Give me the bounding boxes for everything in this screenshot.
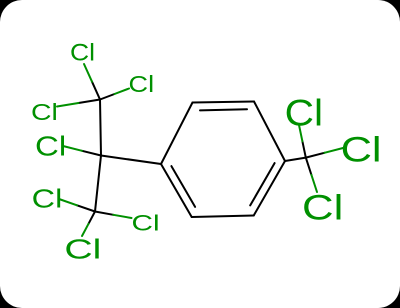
svg-text:Cl: Cl xyxy=(341,130,382,170)
svg-text:Cl: Cl xyxy=(31,99,58,125)
wire ring-C4 xyxy=(285,158,306,161)
benzene ring xyxy=(101,102,306,218)
bond C1-Cl C green half xyxy=(57,103,79,107)
svg-text:Cl: Cl xyxy=(132,211,160,236)
bond C3-Cl E black half xyxy=(77,205,95,211)
bond C3-Cl G green half xyxy=(82,224,89,236)
svg-text:Cl: Cl xyxy=(35,131,66,162)
bond C2-Cl D green half xyxy=(63,146,82,151)
ring inner double bond left-lower xyxy=(171,166,195,207)
bond C1-Cl B black half xyxy=(100,94,115,100)
ring edge TL-TR xyxy=(193,102,255,103)
ring edge BL-L xyxy=(161,164,192,217)
bond C4-Cl I green half xyxy=(324,148,343,153)
bond C1-Cl C black half xyxy=(79,100,101,104)
bond C4-Cl H black half xyxy=(302,141,305,157)
svg-text:Cl: Cl xyxy=(32,184,63,214)
ring edge TR-R xyxy=(254,102,285,162)
bond C1-Cl A green half xyxy=(84,64,92,82)
wire C1-C2 xyxy=(100,100,101,156)
bond C4-Cl I black half xyxy=(306,153,325,158)
bond C3-Cl F green half xyxy=(113,215,131,218)
ring edge L-TL xyxy=(161,103,193,165)
bond C1-Cl B green half xyxy=(115,89,130,95)
wire C2-C3 xyxy=(95,156,101,212)
ring edge BR-BL xyxy=(192,216,254,218)
bond C1-Cl A black half xyxy=(92,82,100,100)
bond C4-Cl J green half xyxy=(311,175,317,192)
ring inner double bond right-lower xyxy=(250,163,274,205)
wire C2-ring xyxy=(101,156,161,165)
bond C2-Cl D black half xyxy=(82,151,101,156)
bond C4-Cl J black half xyxy=(306,158,312,175)
ring edge R-BR xyxy=(254,161,285,216)
bond C3-Cl F black half xyxy=(95,212,113,215)
bond C4-Cl H green half xyxy=(299,125,302,141)
ring inner double bond top xyxy=(200,109,247,110)
bond C3-Cl G black half xyxy=(89,212,96,224)
bond C3-Cl E green half xyxy=(59,199,77,205)
svg-text:Cl: Cl xyxy=(70,40,95,67)
svg-text:Cl: Cl xyxy=(285,91,323,133)
svg-text:Cl: Cl xyxy=(129,71,155,97)
svg-text:Cl: Cl xyxy=(302,188,343,228)
svg-text:Cl: Cl xyxy=(64,234,101,265)
